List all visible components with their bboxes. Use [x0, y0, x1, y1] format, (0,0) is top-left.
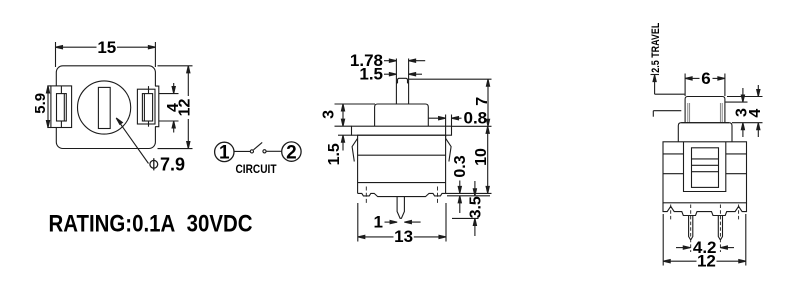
- dimension 15 text: [97, 38, 116, 57]
- svg-text:12: 12: [697, 252, 716, 271]
- front view: center terminal pin: [397, 197, 404, 219]
- side view: cap inner wall right: [720, 103, 722, 123]
- front view: bottom profile: [358, 193, 446, 196]
- dimension 0.3 arrows: [458, 181, 461, 214]
- front view: rivet center line left: [365, 187, 367, 205]
- top view: right side tab recess: [137, 86, 158, 127]
- dimension 0.3 text: [452, 155, 469, 177]
- side view: contact stack outline: [692, 148, 719, 188]
- side view: contact stack lines: [692, 159, 719, 172]
- dimension 12 text (top view): [177, 96, 194, 119]
- svg-text:CIRCUIT: CIRCUIT: [236, 164, 277, 176]
- dimension 10 text: [473, 148, 490, 166]
- svg-text:0.3: 0.3: [452, 155, 469, 177]
- dimension 4 text (side view): [747, 109, 764, 118]
- dimension 0.3 extension line: [447, 195, 490, 197]
- dimension 4 text (top view): [165, 103, 182, 112]
- front view: button cap: [375, 104, 429, 126]
- svg-text:1.5: 1.5: [359, 65, 383, 84]
- svg-text:15: 15: [97, 38, 116, 57]
- travel dimension line: [653, 75, 656, 95]
- terminal 2 circle: [282, 142, 301, 161]
- dimension 6 extension lines: [685, 74, 725, 97]
- top view: left terminal clip: [57, 94, 67, 121]
- svg-text:7: 7: [474, 97, 491, 106]
- travel tick mark: [651, 74, 660, 76]
- side view: notch center line right: [738, 205, 740, 220]
- top view: switch body outline: [56, 66, 155, 149]
- dimension 6 line: [685, 77, 725, 80]
- top view: button circle: [78, 81, 131, 134]
- dimension 3.5 text: [468, 196, 485, 218]
- dimension 4 extension lines (top view): [159, 94, 179, 121]
- diameter 7.9 label: [150, 154, 185, 174]
- svg-text:0.8: 0.8: [464, 109, 488, 128]
- rating text: [49, 211, 253, 238]
- svg-text:1: 1: [374, 213, 383, 232]
- dimension 1.78 text: [350, 51, 383, 70]
- terminal 2 label: [286, 142, 297, 163]
- dimension 3.5 extension line: [452, 217, 479, 219]
- dimension 10 line: [486, 126, 489, 193]
- travel reference line upper: [655, 93, 685, 95]
- top view: right clip stubs: [148, 86, 150, 127]
- side view: housing body: [663, 142, 747, 203]
- circuit caption: [236, 164, 277, 176]
- dimension 4 line (top view): [172, 83, 175, 133]
- leader line for diameter 7.9: [116, 118, 148, 164]
- dimension 1 text: [374, 213, 383, 232]
- svg-text:1: 1: [219, 143, 230, 164]
- dimension 0.8 text: [464, 109, 488, 128]
- dimension 13 line: [358, 235, 446, 238]
- dimension 12 extension lines (side view): [663, 214, 746, 266]
- dimension 6 text: [701, 69, 710, 88]
- top view: left side tab recess: [51, 86, 72, 128]
- side view: inner channel: [684, 142, 726, 192]
- dimension 1 line: [385, 221, 421, 224]
- front view: left snap hook: [352, 138, 358, 161]
- dimension 4.2 text: [693, 238, 717, 257]
- svg-text:1.5: 1.5: [326, 143, 343, 165]
- dimension 7 line: [486, 79, 489, 126]
- dimension 3 arrows (side view): [741, 88, 744, 137]
- side view: pin center line left: [690, 205, 692, 253]
- right contact: [263, 150, 266, 153]
- dimension 3 text (side view): [734, 108, 751, 117]
- dimension 5.9 text: [32, 93, 49, 114]
- svg-text:3.5: 3.5: [468, 196, 485, 218]
- dimension 4 arrows (side view): [757, 85, 760, 137]
- side view: mounting flange: [678, 123, 732, 142]
- dimension 10 bottom extension line: [446, 192, 492, 194]
- front view: mounting flange: [352, 126, 452, 135]
- svg-text:3: 3: [321, 110, 338, 119]
- dimension 0.8 line: [429, 117, 462, 120]
- dimension 1.5 text (flange): [326, 143, 343, 165]
- dimension 1.5 line: [384, 73, 422, 76]
- dimension 12 text (side view): [697, 252, 716, 271]
- dimension 1.5 extension line (flange): [338, 134, 352, 136]
- dimension 3.5 arrows: [473, 181, 476, 236]
- dimension 1.78 line: [384, 59, 425, 62]
- dimension 1.5 text (top): [359, 65, 383, 84]
- dimension 13 text: [394, 227, 413, 246]
- dimension 7 extension lines: [409, 79, 492, 126]
- dimension 3 extension lines (front view): [335, 104, 376, 126]
- travel reference line lower: [653, 111, 681, 117]
- svg-text:4: 4: [747, 109, 764, 118]
- svg-text:5.9: 5.9: [32, 93, 49, 114]
- dimension 1.5 arrow (flange): [341, 135, 344, 150]
- side view: flange top line: [681, 122, 729, 124]
- dimension 12 extension lines (top view): [158, 66, 193, 149]
- dimension 7 text: [474, 97, 491, 106]
- svg-text:2.5 TRAVEL: 2.5 TRAVEL: [650, 22, 662, 72]
- front view: right snap hook: [446, 138, 452, 161]
- svg-text:10: 10: [473, 148, 490, 166]
- dimension 5.9 extension stubs: [47, 86, 51, 128]
- svg-text:13: 13: [394, 227, 413, 246]
- front view: plunger tip: [396, 78, 408, 83]
- travel annotation text: [650, 22, 662, 72]
- side view: body side lines: [663, 154, 747, 174]
- svg-text:6: 6: [701, 69, 710, 88]
- terminal 1 label: [219, 143, 230, 164]
- terminal 1 circle: [215, 142, 234, 161]
- dimension 3 line (front view): [341, 104, 344, 126]
- side view: right terminal pin: [718, 216, 722, 240]
- svg-text:2: 2: [286, 142, 297, 163]
- front view: housing seam line: [358, 154, 446, 156]
- dimension 15 line: [56, 46, 156, 49]
- left contact: [250, 150, 253, 153]
- dimension 12 line (side view): [663, 260, 746, 263]
- side view: button cap: [685, 97, 725, 123]
- wire from right contact to terminal 2: [266, 150, 282, 152]
- dimension 12 line (top view): [187, 66, 190, 149]
- top view: button slot: [98, 87, 110, 128]
- switch lever: [254, 142, 263, 149]
- dimension 3 extension lines (side view): [725, 97, 762, 123]
- dimension 0.8 extension lines: [446, 115, 452, 138]
- side view: left terminal pin: [689, 216, 693, 240]
- top view: right terminal clip: [142, 94, 152, 121]
- dimension 5.9 line: [46, 86, 49, 128]
- svg-text:RATING:0.1A 30VDC: RATING:0.1A 30VDC: [49, 211, 253, 238]
- side view: base bottom profile: [663, 203, 747, 216]
- dimension 4.2 line: [676, 246, 734, 249]
- front view: base plate top line: [358, 182, 446, 184]
- top view: left clip stubs: [60, 86, 62, 128]
- dimension 15 extension lines: [56, 42, 156, 67]
- side view: notch center line left: [670, 205, 672, 220]
- front view: plunger outer edges / extension lines: [396, 59, 408, 105]
- side view: cap inner wall left: [688, 103, 690, 123]
- wire from terminal 1 to left contact: [234, 150, 250, 152]
- dimension 13 extension lines: [358, 203, 446, 242]
- side view: pin center line right: [719, 205, 721, 253]
- dimension 3 text (front view): [321, 110, 338, 119]
- svg-text:12: 12: [177, 99, 194, 117]
- front view: rivet center line right: [437, 187, 439, 205]
- svg-text:7.9: 7.9: [160, 154, 185, 174]
- front view: housing body: [358, 135, 446, 193]
